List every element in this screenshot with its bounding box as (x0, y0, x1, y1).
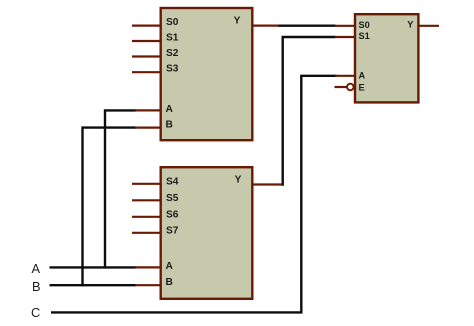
svg-text:S1: S1 (166, 33, 179, 44)
svg-text:Y: Y (235, 174, 242, 185)
svg-text:S0: S0 (359, 20, 370, 30)
label S2 of U1 (166, 48, 179, 59)
pin S3 of U1 (132, 71, 161, 73)
pin B of U1 (135, 126, 161, 128)
pin A of U1 (135, 109, 161, 111)
pin B of U2 (135, 284, 161, 286)
svg-text:B: B (166, 277, 173, 288)
svg-text:A: A (32, 261, 41, 276)
svg-text:Y: Y (407, 19, 413, 29)
pin S0 of U3 (335, 25, 356, 27)
wire U1.Y to U3.S0 (278, 25, 336, 27)
svg-text:Y: Y (234, 16, 241, 27)
svg-text:E: E (359, 82, 365, 92)
pin S0 of U1 (132, 25, 161, 27)
pin A of U3 (335, 75, 356, 77)
label A of U2 (166, 261, 174, 272)
label A of U3 (359, 70, 366, 80)
svg-text:S4: S4 (166, 176, 179, 187)
label B of U2 (166, 277, 173, 288)
net label A (32, 261, 41, 276)
pin Y of U3 (419, 25, 439, 27)
svg-text:S2: S2 (166, 48, 179, 59)
wire net A to U2.A (50, 266, 137, 268)
svg-text:S1: S1 (359, 31, 370, 41)
label S6 of U2 (166, 209, 179, 220)
pin E of U3 (active-low stub) (335, 86, 347, 88)
wire U2.Y to U3.S1 (283, 37, 336, 185)
inversion bubble on pin E of U3 (347, 84, 354, 91)
label S5 of U2 (166, 193, 179, 204)
pin S1 of U3 (335, 36, 356, 38)
svg-text:S0: S0 (166, 17, 179, 28)
label Y of U2 (235, 174, 242, 185)
pin S2 of U1 (132, 55, 161, 57)
label S1 of U1 (166, 33, 179, 44)
label Y of U1 (234, 16, 241, 27)
label A of U1 (166, 104, 174, 115)
label E of U3 (359, 82, 365, 92)
label S4 of U2 (166, 176, 179, 187)
svg-text:A: A (166, 104, 174, 115)
label S3 of U1 (166, 64, 179, 75)
svg-text:B: B (166, 119, 173, 130)
mux U1 (4-to-1) body (161, 8, 253, 140)
svg-text:S7: S7 (166, 225, 179, 236)
pin S6 of U2 (132, 216, 161, 218)
mux U3 (2-to-1) body (355, 14, 418, 102)
svg-text:A: A (359, 70, 366, 80)
label S0 of U3 (359, 20, 370, 30)
wire net B to U2.B (50, 284, 137, 286)
mux U2 (4-to-1) body (161, 167, 253, 299)
svg-text:S5: S5 (166, 193, 179, 204)
wire U1.B to net B (83, 128, 137, 287)
pin S7 of U2 (132, 232, 161, 234)
net label B (32, 279, 41, 294)
label Y of U3 (407, 19, 413, 29)
pin S4 of U2 (132, 183, 161, 185)
net label C (31, 305, 40, 320)
label B of U1 (166, 119, 173, 130)
pin A of U2 (135, 266, 161, 268)
label S0 of U1 (166, 17, 179, 28)
label S7 of U2 (166, 225, 179, 236)
svg-text:B: B (32, 279, 41, 294)
svg-text:S6: S6 (166, 209, 179, 220)
svg-text:C: C (31, 305, 40, 320)
pin Y of U2 (253, 183, 282, 185)
wire net C to U3.A (51, 76, 337, 313)
label S1 of U3 (359, 31, 370, 41)
wire U1.A to net A (105, 110, 136, 268)
pin S1 of U1 (132, 40, 161, 42)
svg-text:A: A (166, 261, 174, 272)
pin Y of U1 (253, 25, 279, 27)
pin S5 of U2 (132, 199, 161, 201)
svg-text:S3: S3 (166, 64, 179, 75)
